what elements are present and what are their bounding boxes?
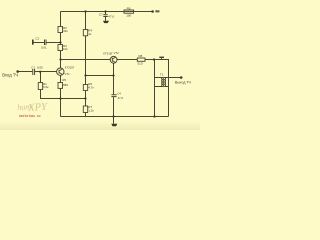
wire left column x60 upper [60, 12, 62, 27]
svg-text:R8: R8 [139, 54, 143, 58]
wire to right column [145, 60, 169, 117]
supply label mark [155, 10, 159, 12]
wire [85, 36, 87, 85]
node A dot [39, 71, 41, 73]
svg-text:VT2: VT2 [114, 51, 120, 55]
terminal dot supply [151, 10, 154, 13]
node dot x60 y98 [59, 97, 61, 99]
ground symbol top [103, 21, 109, 23]
ground stub bottom [113, 117, 115, 124]
transistor VT2 circle [110, 56, 117, 63]
output terminal dot [180, 76, 183, 79]
wire to base VT1 [35, 71, 57, 73]
base wire VT2 [61, 59, 111, 61]
capacitor C1 plates [33, 69, 35, 75]
node dot x85 emitter link [84, 74, 86, 76]
bottom ground rail [61, 116, 169, 118]
wire [113, 97, 115, 117]
capacitor C7 stub [105, 12, 107, 15]
wire [41, 90, 86, 99]
svg-text:Выход ТЧ: Выход ТЧ [175, 80, 192, 84]
node dot x113 emitter link [112, 74, 114, 76]
svg-text:КТ315Г: КТ315Г [103, 51, 113, 55]
input terminal C2 bar [32, 40, 34, 45]
wire [60, 33, 62, 45]
resistor R8 [137, 58, 145, 61]
wire emitter VT1 [60, 75, 62, 82]
svg-text:C2: C2 [35, 36, 39, 40]
resistor R5 [58, 83, 63, 89]
svg-text:C7: C7 [99, 12, 103, 16]
wire emitter VT2 down [113, 63, 115, 94]
transformer T1 leads [155, 78, 169, 87]
input wire [19, 71, 32, 73]
svg-text:0,01: 0,01 [41, 45, 47, 49]
wire collector VT2 [117, 59, 137, 61]
svg-text:5,6к: 5,6к [43, 85, 49, 89]
resistor R1 [38, 83, 42, 90]
resistor R2 [58, 27, 63, 33]
transistor VT1 symbol [59, 69, 62, 74]
node dot divider x60 [59, 41, 61, 43]
watermark logo script [17, 102, 48, 114]
ground symbol bottom [111, 124, 117, 127]
wire [85, 91, 87, 107]
wire x154 column [154, 60, 156, 117]
svg-text:100: 100 [126, 13, 131, 17]
wire node A down [40, 72, 42, 83]
transistor VT1 circle [57, 68, 64, 75]
transformer T1 core [163, 77, 165, 87]
wire collector VT1 [60, 51, 62, 69]
capacitor C7 plates [103, 15, 107, 17]
svg-text:C4: C4 [117, 92, 121, 96]
svg-text:1,2к: 1,2к [88, 108, 94, 112]
svg-text:47,0: 47,0 [118, 96, 124, 100]
capacitor mark on wire [161, 58, 163, 59]
resistor R3 [58, 45, 63, 51]
svg-text:680: 680 [63, 83, 68, 87]
svg-text:R9: R9 [127, 6, 131, 10]
node dot top rail x105 [104, 10, 106, 12]
node dot rail x113 [112, 115, 114, 117]
svg-text:33к: 33к [63, 29, 68, 33]
capacitor C4 plates [111, 95, 116, 97]
node dot top rail x85 [84, 10, 86, 12]
svg-text:4,7к: 4,7к [88, 85, 94, 89]
svg-text:C1: C1 [31, 65, 35, 69]
node dot x85 y98 [84, 97, 86, 99]
node dot collector VT1 [59, 58, 61, 60]
svg-text:47,0: 47,0 [108, 15, 114, 19]
node dot rail x154 [153, 115, 155, 117]
wire [105, 17, 107, 21]
transformer T1 right winding [164, 78, 165, 87]
transformer T1 left winding [162, 78, 163, 87]
wire [46, 42, 60, 44]
wire [60, 88, 62, 116]
svg-text:VT1: VT1 [65, 72, 71, 76]
wire x85 upper [85, 12, 87, 30]
capacitor C2 plates [45, 40, 47, 46]
capacitor C2 branch wire [34, 42, 45, 44]
svg-text:R5: R5 [62, 78, 66, 82]
node dot after R8 [153, 58, 155, 60]
wire emitter link [86, 75, 114, 77]
svg-text:0,05: 0,05 [37, 66, 43, 70]
svg-text:КТ315Г: КТ315Г [65, 66, 75, 70]
resistor R4 [83, 30, 87, 36]
svg-text:10к: 10к [63, 47, 68, 51]
svg-text:ladiohac.ru: ladiohac.ru [19, 114, 41, 118]
wire [85, 113, 87, 117]
svg-text:Т1: Т1 [160, 72, 164, 76]
wire top supply rail [61, 11, 153, 13]
resistor R9 [124, 10, 134, 13]
svg-text:510: 510 [138, 61, 143, 65]
transistor VT2 symbol [112, 57, 115, 62]
resistor R6 [83, 85, 87, 91]
output wire [169, 77, 181, 79]
svg-text:Вход ТЧ: Вход ТЧ [2, 73, 18, 78]
svg-text:XPY: XPY [27, 102, 49, 114]
resistor R7 [83, 106, 87, 113]
input terminal dot [16, 70, 19, 73]
